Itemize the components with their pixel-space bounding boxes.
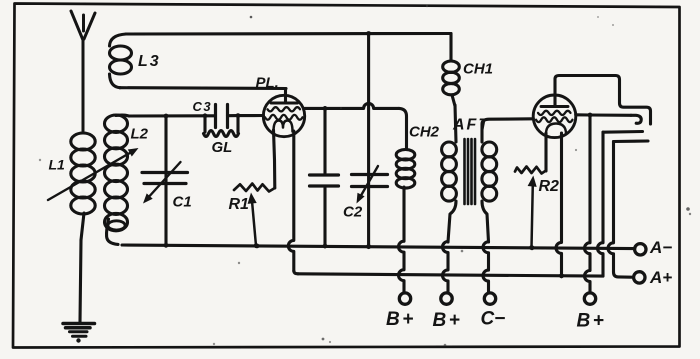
antenna (71, 11, 95, 133)
transformer AFT secondary (482, 119, 533, 292)
label CH1 (463, 61, 493, 78)
label L2 (131, 126, 149, 143)
svg-text:R1: R1 (229, 196, 250, 213)
svg-text:R2: R2 (539, 178, 560, 195)
label C3 (193, 99, 213, 114)
choke CH2 (396, 150, 415, 293)
terminal A- (635, 244, 646, 255)
svg-text:C−: C− (481, 309, 506, 330)
svg-text:B+: B+ (433, 310, 463, 331)
svg-text:C1: C1 (173, 194, 192, 211)
terminal B+ 2 (441, 293, 452, 304)
rheostat R2 (515, 167, 546, 251)
wire V1 filament left leg (274, 130, 275, 188)
label C1 (173, 194, 192, 211)
label B+ 3 (577, 311, 607, 332)
ground (63, 324, 95, 343)
coil L3 (110, 34, 132, 88)
svg-text:L1: L1 (49, 157, 66, 173)
svg-text:C2: C2 (343, 204, 363, 221)
svg-text:C3: C3 (193, 99, 213, 114)
svg-text:B+: B+ (386, 309, 416, 330)
terminal B+ 1 (399, 293, 410, 304)
rheostat R1 (234, 184, 275, 249)
label AFT (452, 117, 490, 134)
wire A+ rail (298, 273, 603, 278)
transformer AFT core (465, 139, 476, 204)
wire A- rail (122, 245, 634, 249)
label C2 (343, 204, 363, 221)
tube V1 detector (263, 95, 304, 136)
label R1 (229, 196, 250, 213)
svg-text:CH1: CH1 (463, 61, 493, 78)
svg-text:PL.: PL. (256, 75, 279, 92)
label L3 (138, 53, 161, 70)
label CH2 (409, 124, 440, 141)
svg-text:CH2: CH2 (409, 124, 440, 141)
wire phone lead lower (608, 141, 648, 277)
wire V1 plate lead (305, 103, 407, 149)
label PL (256, 75, 279, 92)
label GL (212, 139, 233, 156)
choke CH1 (443, 34, 460, 107)
wire phone lead upper (598, 132, 643, 276)
label R2 (539, 178, 560, 195)
arrow C1 (143, 162, 181, 204)
capacitor C1 (142, 116, 188, 245)
terminal C- (484, 293, 495, 304)
capacitor fixed bypass (310, 108, 339, 248)
svg-text:GL: GL (212, 139, 233, 156)
transformer AFT primary (442, 105, 457, 292)
label C- (481, 309, 506, 330)
junction dots A- rail (164, 243, 535, 250)
capacitor C2 (352, 34, 388, 249)
wire L3 to plate (120, 88, 286, 103)
wire grid lead (129, 113, 264, 118)
svg-text:L2: L2 (131, 126, 149, 143)
wire V1 filament right leg (288, 131, 298, 274)
capacitor C3 (205, 105, 238, 128)
svg-text:AFT: AFT (452, 117, 490, 134)
grid leak GL (204, 116, 239, 137)
label A+ (649, 268, 672, 287)
terminal B+ 3 (584, 293, 595, 304)
wire V2 filament left leg (544, 133, 547, 171)
svg-text:L3: L3 (138, 53, 161, 70)
tube V2 amplifier (533, 95, 576, 138)
label B+ 2 (433, 310, 463, 331)
label A- (649, 238, 672, 257)
wire to B+ 4 (585, 115, 591, 293)
wire V2 filament right leg (556, 133, 564, 278)
svg-text:B+: B+ (577, 311, 607, 332)
wire V2 plate loop (555, 76, 651, 125)
label L1 (49, 157, 66, 173)
svg-text:A−: A− (649, 238, 672, 257)
wire V2 output lead (576, 113, 641, 124)
label B+ 1 (386, 309, 416, 330)
terminal A+ (634, 272, 645, 283)
arrow C2 (357, 166, 379, 204)
coil L2 (105, 115, 130, 244)
variocoupler arrow L1-L2 (48, 148, 139, 200)
wire top rail (126, 31, 451, 36)
coil L1 (71, 133, 95, 322)
svg-text:A+: A+ (649, 268, 672, 287)
